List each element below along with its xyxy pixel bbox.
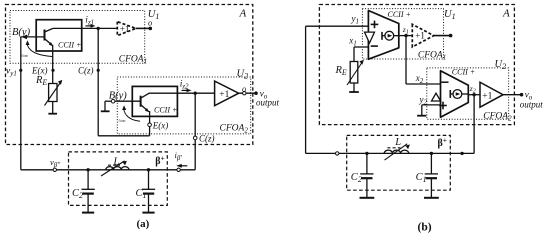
svg-text:vy1: vy1	[6, 67, 17, 78]
svg-text:E(x): E(x)	[31, 66, 48, 76]
svg-text:iz2: iz2	[180, 80, 189, 91]
svg-text:(a): (a)	[137, 218, 150, 230]
svg-text:U1: U1	[444, 9, 456, 21]
svg-text:A: A	[239, 8, 247, 20]
svg-text:z2: z2	[469, 84, 476, 95]
svg-text:RE: RE	[335, 65, 347, 77]
svg-text:β+: β+	[155, 153, 165, 167]
svg-text:CCII +: CCII +	[388, 10, 411, 19]
svg-text:iβ′: iβ′	[175, 150, 183, 162]
svg-text:L: L	[394, 137, 401, 148]
svg-text:C(z): C(z)	[199, 134, 215, 144]
svg-text:+1: +1	[120, 24, 130, 34]
svg-text:B(y): B(y)	[12, 27, 31, 38]
svg-text:A: A	[502, 8, 510, 20]
svg-text:≈∞: ≈∞	[119, 118, 126, 124]
svg-text:z1: z1	[402, 25, 409, 36]
svg-text:RE: RE	[35, 75, 47, 87]
svg-text:CFOA1: CFOA1	[119, 55, 147, 66]
svg-text:β+: β+	[438, 136, 448, 150]
svg-text:CFOA2: CFOA2	[220, 124, 249, 135]
svg-text:C2: C2	[72, 188, 83, 200]
svg-text:o: o	[242, 84, 246, 94]
svg-text:CFOA1: CFOA1	[418, 51, 446, 62]
svg-text:o: o	[148, 18, 152, 28]
svg-text:≈∞: ≈∞	[21, 53, 28, 59]
svg-text:E(x): E(x)	[152, 121, 169, 131]
svg-text:iz1: iz1	[85, 16, 94, 27]
svg-text:output: output	[256, 97, 280, 107]
svg-text:x1: x1	[348, 36, 357, 48]
svg-text:CCII +: CCII +	[154, 106, 177, 115]
svg-text:U2: U2	[237, 69, 249, 81]
svg-text:B(y): B(y)	[109, 91, 128, 102]
svg-text:+1: +1	[219, 90, 229, 100]
svg-text:x2: x2	[415, 73, 424, 85]
svg-text:+1: +1	[415, 31, 425, 41]
svg-text:C(z): C(z)	[78, 66, 94, 76]
svg-text:y1: y1	[351, 14, 360, 26]
svg-text:L: L	[113, 157, 120, 168]
svg-text:C2: C2	[351, 172, 362, 184]
svg-text:CCII +: CCII +	[58, 41, 81, 50]
svg-text:(b): (b)	[418, 222, 432, 234]
svg-text:vβ″: vβ″	[50, 157, 60, 169]
svg-text:y2: y2	[419, 95, 428, 107]
svg-text:U2: U2	[495, 59, 507, 71]
svg-text:output: output	[520, 100, 544, 110]
svg-text:CFOA2: CFOA2	[483, 112, 512, 123]
svg-text:CCII +: CCII +	[452, 67, 475, 76]
svg-text:+1: +1	[482, 91, 492, 101]
